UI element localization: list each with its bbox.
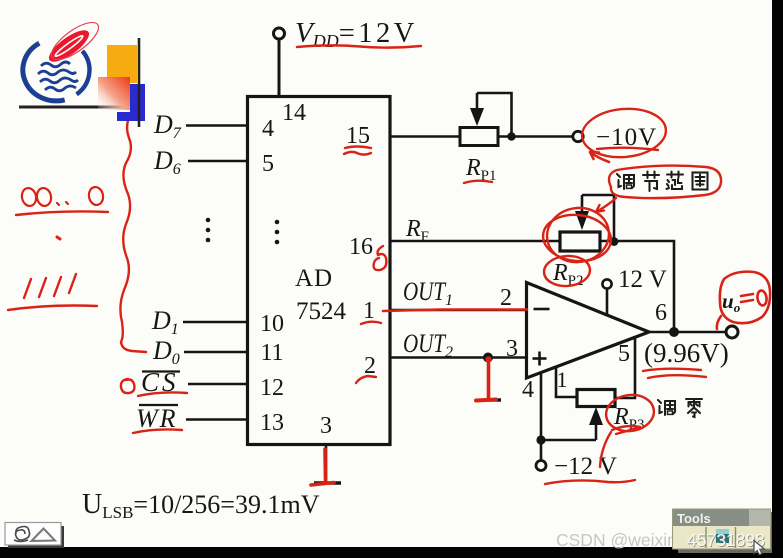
wire D1 stub [183, 321, 248, 324]
svg-text:15: 15 [346, 123, 370, 149]
logo blue rect L [117, 84, 145, 121]
tools button icon [716, 529, 729, 543]
bottom-left icon box shadow [8, 526, 64, 548]
red dot [57, 237, 60, 239]
red underline 9.96 [643, 369, 701, 371]
wire D0 stub [184, 351, 248, 354]
svg-text:5: 5 [262, 151, 274, 177]
chip U1 AD7524 outline [248, 97, 391, 445]
wire RP2 wiper loop [582, 195, 614, 241]
svg-text:1: 1 [363, 298, 375, 324]
logo blue circle arc [23, 43, 90, 101]
red bubble tiaojiefanwei [609, 166, 721, 199]
wire pin4 to -12V [540, 373, 543, 461]
junction RP2 output [610, 237, 619, 246]
svg-text:2: 2 [500, 285, 512, 311]
wire VDD to pin14 [278, 39, 281, 96]
wire pin1 to RP3 [556, 367, 577, 397]
LOGO top-left [19, 16, 145, 127]
logo blue waves [38, 62, 78, 91]
logo red gradient rect [98, 77, 130, 110]
svg-text:11: 11 [260, 340, 283, 366]
svg-text:3: 3 [506, 336, 518, 362]
red ground mark pin3 [311, 449, 334, 485]
tools panel body [673, 509, 771, 549]
junction RP1 output [507, 132, 515, 140]
red brace curve from logo to D0 [120, 112, 146, 352]
red tail -10V arrow [590, 152, 609, 162]
red mark under RP3 [612, 426, 641, 434]
svg-text:Tools: Tools [677, 511, 711, 526]
terminal uo output [726, 326, 738, 338]
tools panel shadow [678, 512, 772, 553]
terminal -12V [536, 461, 546, 471]
wire RP2 to feedback corner [600, 241, 674, 332]
red underline -12V [545, 480, 635, 484]
svg-text:1: 1 [557, 367, 568, 392]
svg-text:4: 4 [522, 377, 534, 403]
svg-text:(9.96V): (9.96V) [644, 338, 729, 368]
op-amp plus input sign [533, 357, 547, 360]
red underline WR [133, 429, 182, 433]
red dash under pin1 [361, 322, 381, 324]
wire OUT1 to op-amp [390, 309, 527, 312]
red dash under pin2 [356, 376, 376, 383]
logo yellow rect [107, 45, 137, 83]
red ellipse around RP2 label [543, 254, 591, 287]
svg-text:−12 V: −12 V [554, 453, 617, 480]
label tiaoling 调零 [658, 400, 675, 415]
wire RP3 wiper to pin4 node [541, 439, 596, 442]
potentiometer RP2 body [560, 232, 600, 251]
potentiometer RP1 wiper arrow [476, 93, 479, 110]
red handwriting 1111 [24, 274, 76, 298]
red ground mark OUT2 [476, 356, 496, 400]
red underline CS [138, 392, 187, 396]
logo horizontal line [19, 106, 140, 109]
label tiaojiefanwei 调节范围 [617, 174, 634, 189]
red equals 0 in bubble [741, 290, 768, 306]
junction output node [669, 327, 679, 337]
svg-text:10: 10 [260, 311, 284, 337]
red underline VDD=12V [297, 45, 421, 47]
VDD terminal [274, 28, 285, 39]
wire WR stub [186, 418, 248, 421]
wire op-amp output [649, 331, 726, 334]
black right bar [772, 0, 783, 558]
logo red ellipse [45, 25, 94, 67]
mouse cursor [754, 541, 764, 555]
black bottom bar [0, 547, 783, 558]
red double ellipse around RP2 [544, 204, 613, 266]
wire D6 stub [188, 160, 248, 163]
potentiometer RP2 wiper arrow [581, 195, 584, 212]
red underline 1111 [8, 306, 97, 311]
svg-text:AD: AD [295, 265, 333, 292]
ground pin3 bar [314, 481, 341, 484]
CIRCUIT-BLACK [183, 28, 738, 483]
bottom-left icon box [5, 523, 61, 546]
red circle around RP3 [604, 392, 657, 434]
dots inside chip [275, 220, 280, 245]
svg-text:12 V: 12 V [618, 266, 667, 293]
potentiometer RP3 body [577, 390, 615, 407]
red underline inside -10V [597, 148, 658, 150]
wire +12V to op-amp [606, 289, 609, 316]
ground pin3 wire [325, 445, 328, 484]
triangle icon [32, 529, 56, 542]
junction pin4 wiper [536, 435, 545, 444]
op-amp U2 triangle [527, 283, 650, 379]
red bubble uo=0 [717, 272, 770, 329]
terminal -10V [573, 131, 583, 141]
svg-text:16: 16 [349, 234, 373, 260]
wire OUT2 to op-amp [390, 356, 527, 359]
svg-text:5: 5 [618, 341, 630, 367]
stamp icon scribble [14, 527, 30, 542]
svg-text:14: 14 [282, 100, 306, 126]
wire pin15 to RP1 [390, 135, 460, 138]
svg-text:CSDN @weixin_: CSDN @weixin_ [556, 530, 687, 551]
red circle near CS [121, 379, 135, 393]
svg-text:3: 3 [320, 413, 332, 439]
RED ANNOTATIONS [8, 45, 770, 485]
potentiometer RP3 wiper arrow [595, 424, 598, 440]
red tail RP3 [600, 432, 611, 467]
wire RP1 to -10V terminal [498, 135, 573, 138]
svg-text:12: 12 [260, 375, 284, 401]
red scribble near pin16 [374, 246, 387, 270]
junction OUT2 ground tap [483, 353, 493, 363]
red double underline pin15 [345, 147, 371, 149]
red underline RP1 [464, 181, 492, 183]
svg-text:6: 6 [655, 300, 667, 326]
dots outside chip [206, 218, 211, 243]
wire pin16 RF to RP2 [390, 240, 560, 243]
potentiometer RP1 body [460, 128, 498, 146]
op-amp minus input sign [534, 308, 550, 311]
svg-text:13: 13 [260, 410, 284, 436]
wire CS stub [188, 383, 248, 386]
wire RP1 wiper loop [477, 93, 512, 137]
terminal +12V [602, 279, 611, 288]
tools button separators [705, 527, 707, 548]
svg-text:7524: 7524 [296, 298, 347, 325]
wire D7 stub [186, 124, 248, 127]
svg-text:45731898: 45731898 [687, 530, 765, 550]
wire pin5 to RP3 [615, 337, 635, 398]
tools title bar [673, 510, 749, 527]
red handwriting 00..0 [20, 186, 104, 207]
red line over OUT1 wire [383, 310, 527, 312]
red ellipse around -10V [580, 105, 668, 160]
logo vertical line [138, 38, 141, 127]
ground OUT2 black stub [488, 360, 490, 374]
red underline 00..0 [16, 211, 108, 215]
svg-text:4: 4 [262, 116, 274, 142]
red tail tiaojiefanwei arrow [596, 198, 616, 212]
